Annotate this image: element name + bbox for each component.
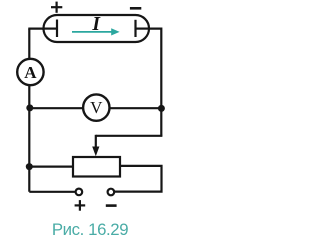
wire: left vertical main bus bbox=[28, 29, 30, 192]
label: + polarity at tube bbox=[51, 2, 62, 13]
electrode: anode (left plate) bbox=[56, 20, 58, 38]
current arrow I (teal) bbox=[72, 28, 120, 35]
wire: bottom left to plus post bbox=[29, 191, 75, 193]
wire: rheostat right terminal to minus post bbox=[114, 166, 161, 192]
wire: left lead inside tube bbox=[42, 28, 57, 30]
voltmeter V1 bbox=[83, 94, 109, 120]
wire: wiper feed horizontal bbox=[96, 135, 163, 137]
wire: right lead from tube bbox=[136, 29, 162, 136]
wire: top-left lead to tube bbox=[28, 28, 57, 30]
junction: right bus / voltmeter branch bbox=[158, 105, 165, 112]
terminal: + post bbox=[76, 189, 83, 196]
label: - polarity at tube bbox=[130, 7, 141, 10]
terminal: - post bbox=[108, 189, 115, 196]
wire: rheostat left terminal bbox=[29, 166, 74, 168]
rheostat R body bbox=[73, 157, 120, 177]
wire: right lead inside tube bbox=[136, 28, 151, 30]
svg-text:V: V bbox=[90, 98, 103, 117]
svg-text:A: A bbox=[24, 63, 37, 82]
svg-text:I: I bbox=[91, 14, 101, 35]
junction: left bus / rheostat branch bbox=[26, 163, 33, 170]
ammeter A1 bbox=[17, 59, 43, 85]
junction: left bus / voltmeter branch bbox=[26, 104, 33, 111]
svg-text:Рис. 16.29: Рис. 16.29 bbox=[52, 220, 128, 239]
electrode: cathode (right plate) bbox=[134, 20, 136, 37]
label: - at post bbox=[106, 204, 117, 207]
wire: wiper vertical with arrow bbox=[95, 135, 97, 149]
discharge tube envelope bbox=[44, 15, 150, 42]
arrowhead: rheostat wiper bbox=[92, 147, 99, 157]
label: + at post bbox=[75, 200, 86, 211]
wire: voltmeter branch horizontal bbox=[29, 107, 161, 109]
